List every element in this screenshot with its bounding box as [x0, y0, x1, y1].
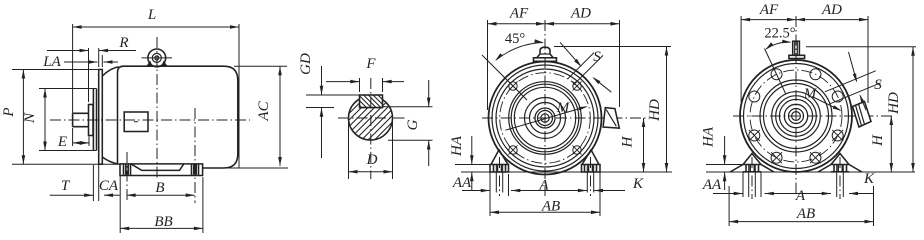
view 4 spigot circles: [760, 80, 832, 152]
view 3 left foot hole lines: [495, 165, 497, 193]
svg-text:AC: AC: [256, 100, 272, 121]
dimension HA view 3: [455, 164, 490, 166]
shaft horizontal centerline: [338, 117, 405, 119]
dimension P: [12, 69, 99, 71]
dimension AC: [234, 65, 287, 67]
view 3 bolt circle (M): [500, 73, 591, 164]
dimension AA view 4: [713, 193, 743, 195]
dimension BB: [202, 177, 204, 233]
view 3 flange hole upper-left: [509, 82, 517, 90]
flange spigot face lines: [92, 89, 94, 151]
view 4 bearing circles: [772, 92, 821, 141]
view 4 left foot hole lines: [748, 165, 750, 198]
view 3 flange hole upper-right: [573, 82, 581, 90]
svg-text:F: F: [365, 56, 376, 72]
svg-text:45°: 45°: [505, 31, 526, 47]
view 3 terminal box: [603, 108, 619, 129]
dimension AF: [487, 20, 489, 110]
flange plate: [99, 70, 103, 165]
view 3 shaft circles: [535, 108, 555, 128]
45 degree angle dimension: [496, 43, 543, 61]
svg-text:HD: HD: [886, 92, 902, 115]
dimension M leader view 3: [505, 107, 586, 131]
svg-text:BB: BB: [154, 214, 172, 230]
shaft shoulder: [89, 105, 94, 136]
dimension L: [72, 24, 74, 113]
view 3 bearing boss circles: [525, 98, 566, 139]
dimension E: [72, 128, 74, 146]
dimension H view 4: [890, 116, 892, 172]
svg-text:M: M: [556, 100, 571, 116]
view 4: vertical centerline: [795, 16, 797, 195]
key cross-section: [360, 95, 383, 108]
ground line view 3: [461, 171, 672, 173]
svg-text:AB: AB: [541, 199, 560, 215]
svg-text:HD: HD: [647, 99, 663, 122]
dimension AB view 3: [599, 172, 601, 216]
view 4 left foot: [730, 165, 774, 173]
svg-text:AB: AB: [796, 206, 815, 222]
svg-text:HA: HA: [701, 126, 717, 148]
svg-text:GD: GD: [298, 53, 314, 75]
dimension K view 3: [594, 190, 625, 192]
view 1: motor side view centerline: [50, 119, 250, 121]
shaft extension: [73, 113, 89, 126]
svg-text:K: K: [632, 176, 644, 192]
rear foot hole centerline: [194, 108, 196, 203]
view 4 terminal box: [853, 102, 872, 128]
dimension AA view 3: [489, 172, 491, 216]
view 4 right foot: [818, 165, 862, 173]
45 degree radial through upper-left hole: [482, 55, 527, 100]
dimension HA view 4: [706, 164, 743, 166]
svg-text:AA: AA: [702, 177, 722, 193]
dimension LA: [101, 55, 103, 67]
svg-text:R: R: [118, 35, 128, 51]
svg-text:S: S: [593, 49, 601, 65]
dimension S view 4: [825, 71, 876, 92]
dimension F: [359, 78, 361, 92]
terminal box on body side: [124, 112, 148, 132]
dimension D: [348, 122, 350, 179]
svg-text:G: G: [405, 119, 421, 130]
svg-text:N: N: [22, 112, 38, 124]
svg-text:HA: HA: [449, 135, 465, 157]
view 3 left foot gusset: [491, 150, 508, 165]
svg-text:22.5°: 22.5°: [764, 26, 795, 42]
view 4 bolt circle (M): [750, 70, 842, 162]
view 3 frame outer circle: [489, 62, 602, 175]
flange-to-body fillet top: [102, 67, 118, 76]
keyway floor line: [360, 107, 383, 109]
svg-text:A: A: [538, 178, 549, 194]
front foot hole centerline: [126, 152, 128, 203]
dimension HD view 3: [554, 46, 671, 48]
foot plate cutout profile: [131, 164, 184, 171]
dimension G: [383, 106, 433, 108]
svg-text:H: H: [870, 134, 886, 147]
svg-text:D: D: [366, 152, 378, 168]
shaft vertical centerline: [370, 78, 372, 179]
view 3 right foot hole lines: [586, 165, 588, 193]
view 4 lifting eye front view: [793, 41, 800, 55]
svg-text:AA: AA: [452, 175, 472, 191]
view 3 flange hole lower-right: [573, 146, 581, 154]
view 3 lifting eye front view: [537, 47, 553, 58]
dimension A view 4: [765, 193, 832, 195]
view 4 flange holes (8x): [810, 69, 821, 80]
svg-text:K: K: [863, 171, 875, 187]
dimension S view 3: [568, 53, 594, 79]
svg-text:B: B: [155, 180, 164, 196]
shaft section circle: [349, 96, 393, 140]
svg-text:LA: LA: [42, 54, 61, 70]
dimension H view 3: [643, 118, 645, 172]
motor body outline: [118, 66, 238, 168]
dimension N: [39, 88, 97, 90]
dimension AF view 4: [740, 16, 742, 102]
svg-text:A: A: [795, 188, 806, 204]
svg-text:CA: CA: [99, 178, 119, 194]
front foot hole hatch: [123, 165, 125, 175]
flange-to-body fillet bottom: [102, 157, 118, 164]
dimension GD: [306, 94, 360, 96]
view 4: horizontal centerline: [733, 115, 895, 117]
view 4 flange outer circle: [740, 60, 852, 172]
view 4 right foot hole lines: [836, 165, 838, 198]
dimension M leader view 4: [812, 97, 841, 111]
view 4 shaft circles: [784, 104, 807, 127]
foot plate side view: [120, 164, 203, 176]
dimension HD view 4: [806, 46, 916, 48]
view 3 flange hole lower-left: [509, 146, 517, 154]
view 3 left foot pad: [490, 165, 509, 173]
dimension R: [88, 48, 90, 102]
svg-text:AD: AD: [821, 2, 842, 18]
lifting eyebolt side view: [148, 49, 166, 67]
view 3: vertical centerline: [544, 20, 546, 196]
svg-text:S: S: [874, 77, 882, 93]
svg-text:AF: AF: [759, 2, 779, 18]
dimension K view 4: [849, 193, 874, 195]
svg-text:H: H: [620, 135, 636, 148]
view 3 spigot circles: [509, 82, 582, 155]
svg-text:M: M: [803, 86, 818, 102]
view 3 right foot gusset: [582, 150, 599, 165]
svg-text:AD: AD: [570, 6, 591, 22]
dimension AD: [619, 20, 621, 107]
svg-text:L: L: [147, 7, 156, 23]
svg-text:AF: AF: [509, 6, 529, 22]
22.5 degree angle dimension: [766, 42, 791, 49]
dimension AB view 4: [728, 186, 730, 226]
dimension A view 3: [511, 190, 587, 192]
ground line view 4: [706, 171, 915, 173]
dimension CA: [119, 176, 121, 233]
dimension B: [127, 194, 195, 196]
view 3 end-shield circles: [492, 65, 598, 171]
view 3: horizontal centerline: [482, 117, 649, 119]
rear foot hole hatch: [191, 165, 193, 175]
svg-text:P: P: [1, 107, 17, 117]
22.5 degree radial through top-left hole: [765, 49, 787, 95]
eyebolt vertical centerline: [156, 37, 158, 180]
view 3 right foot pad: [582, 165, 601, 173]
svg-text:E: E: [57, 134, 67, 150]
dimension T: [92, 165, 94, 201]
dimension AD view 4: [867, 16, 869, 103]
